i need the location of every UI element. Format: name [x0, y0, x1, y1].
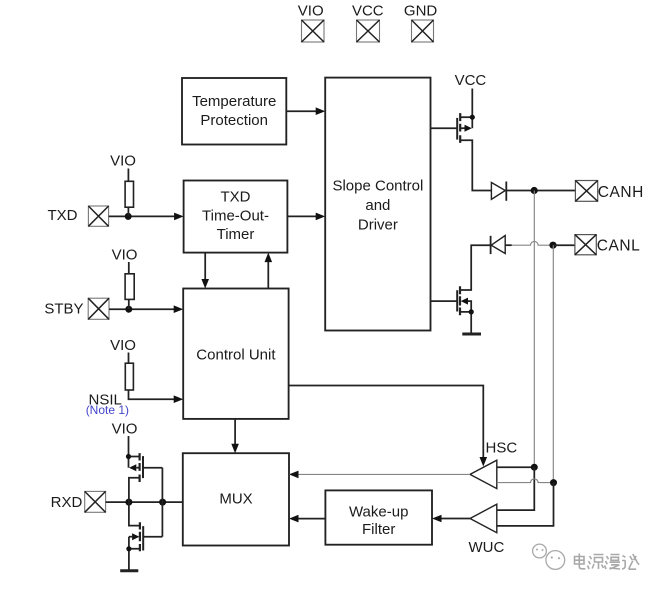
comparator HSC (high-speed comparator) [470, 460, 497, 488]
wire TXD to TXD Time-Out-Timer [109, 213, 184, 221]
transistor Q4 (RXD NMOS) [129, 502, 163, 570]
block Wake-up Filter [325, 490, 432, 544]
ground (Q4 source) [120, 569, 138, 572]
junction HSC-CANH node [531, 464, 538, 471]
wire Control Unit to MUX (down arrow) [231, 419, 239, 453]
svg-text:Wake-up: Wake-up [349, 504, 408, 521]
wire resistor R1 to TXD node [127, 207, 129, 216]
junction Q1 source-bulk node [470, 115, 475, 120]
block Slope Control and Driver [325, 78, 430, 331]
wire VIO to resistor R2 [128, 262, 130, 274]
svg-text:TXD: TXD [221, 189, 251, 206]
wire HSC output to MUX (thin) [289, 471, 470, 479]
watermark text 电源漫谈 (drawn strokes) [575, 554, 640, 570]
svg-text:(Note 1): (Note 1) [86, 403, 129, 417]
wire VIO to resistor R1 [127, 169, 129, 182]
svg-text:VIO: VIO [110, 337, 136, 354]
svg-text:CANH: CANH [598, 184, 644, 201]
svg-text:RXD: RXD [51, 494, 83, 511]
wire D2 to CANL node (thin, with hop over CANH sense line) [512, 241, 553, 245]
svg-text:Control Unit: Control Unit [196, 347, 276, 364]
wire Control Unit to HSC (HSC control line) [289, 386, 488, 467]
svg-text:WUC: WUC [469, 539, 505, 556]
junction TXD node [125, 213, 132, 220]
junction CANL sense node [549, 242, 556, 249]
transistor Q1 (high-side PMOS driver) [457, 113, 491, 190]
svg-text:Slope Control: Slope Control [332, 178, 423, 195]
wire RXD to MUX [106, 501, 183, 503]
svg-text:Driver: Driver [358, 217, 398, 234]
svg-text:TXD: TXD [48, 207, 78, 224]
pin STBY [44, 298, 109, 319]
wire HSC input from CANL sense (thin, hop over CANH line) [497, 479, 554, 483]
pin TXD [48, 206, 109, 226]
wire Wake-up Filter to MUX [289, 515, 325, 523]
svg-text:VCC: VCC [352, 3, 384, 20]
junction STBY node [125, 306, 132, 313]
block Control Unit [183, 289, 288, 419]
wire D1 to CANH pin [506, 190, 575, 192]
block MUX [183, 453, 289, 545]
wire CANH sense to WUC input [497, 467, 535, 510]
pin RXD [51, 491, 106, 512]
junction CANH sense node [531, 187, 538, 194]
pin GND (top supply pin) [404, 3, 438, 43]
wire VIO to transistor Q3 [128, 436, 130, 457]
wire CANL sense to WUC input [497, 483, 554, 526]
svg-text:CANL: CANL [597, 238, 641, 255]
svg-text:VIO: VIO [298, 3, 324, 20]
wire Control Unit to TXD Time-Out-Timer (up arrow) [265, 253, 273, 289]
wire CANH sense line (vertical, thin) [533, 191, 535, 468]
svg-text:and: and [365, 197, 390, 214]
resistor R3 (NSIL pull-up) [125, 363, 133, 390]
svg-text:MUX: MUX [219, 491, 252, 508]
wire resistor R2 to STBY node [128, 299, 130, 309]
junction Q3 source-bulk node [126, 454, 131, 459]
junction Q2 source-bulk node [469, 309, 474, 314]
watermark logo (two chat bubbles) [533, 544, 565, 569]
svg-text:GND: GND [404, 3, 438, 20]
wire TXD Time-Out-Timer to Control Unit (down arrow) [201, 253, 209, 289]
diode D1 (CANH output diode) [491, 182, 506, 201]
wire Temperature Protection to Slope Control [286, 107, 325, 115]
pin CANL [575, 235, 640, 255]
pin VIO (top supply pin) [298, 3, 324, 43]
svg-text:Temperature: Temperature [192, 93, 276, 110]
wire VCC to transistor Q1 [471, 89, 473, 118]
junction RXD drain node [125, 499, 132, 506]
comparator WUC (wake-up comparator) [470, 504, 497, 533]
pin VCC (top supply pin) [352, 3, 384, 43]
transistor Q3 (RXD PMOS) [129, 453, 163, 502]
svg-text:VCC: VCC [455, 72, 487, 89]
block TXD Time-Out-Timer [184, 181, 288, 253]
wire TXD Time-Out-Timer to Slope Control [287, 213, 325, 221]
wire VIO to resistor R3 [128, 353, 130, 364]
wire NSIL to Control Unit [129, 390, 184, 403]
wire Slope Control to Q2 gate [431, 300, 458, 302]
transistor Q2 (low-side NMOS driver) [457, 245, 490, 333]
svg-text:HSC: HSC [486, 439, 518, 456]
junction Q4 source-bulk node [126, 546, 131, 551]
svg-text:Filter: Filter [362, 521, 395, 538]
svg-text:Timer: Timer [217, 226, 255, 243]
svg-text:VIO: VIO [110, 152, 136, 169]
wire Slope Control to Q1 gate [431, 127, 458, 129]
wire gate line Q3-Q4 [161, 468, 163, 537]
svg-text:Time-Out-: Time-Out- [202, 208, 269, 225]
resistor R1 (TXD pull-up) [125, 181, 133, 207]
wire CANL sense line (vertical, thin) [552, 245, 554, 482]
svg-text:Protection: Protection [200, 112, 268, 129]
block Temperature Protection [182, 78, 286, 145]
svg-text:STBY: STBY [44, 301, 83, 318]
wire HSC input from CANH sense [497, 466, 535, 468]
wire STBY to Control Unit [109, 305, 183, 313]
resistor R2 (STBY pull-up) [125, 274, 134, 300]
junction WUC-CANL node [550, 479, 557, 486]
ground (Q2 source) [462, 333, 481, 336]
junction RXD gate node [159, 499, 166, 506]
svg-text:VIO: VIO [112, 246, 138, 263]
wire WUC output to Wake-up Filter [432, 515, 470, 523]
wire CANL node to CANL pin [553, 244, 575, 246]
svg-text:VIO: VIO [112, 421, 138, 438]
diode D2 (CANL output diode) [491, 236, 512, 255]
pin CANH [575, 181, 644, 202]
